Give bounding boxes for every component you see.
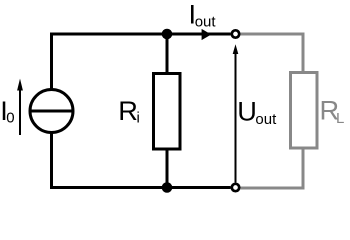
- output terminal top (open circle): [232, 30, 239, 37]
- wire left vertical upper segment: [50, 33, 53, 91]
- resistor Ri: [154, 74, 181, 150]
- svg-text:0: 0: [6, 109, 14, 126]
- svg-text:R: R: [118, 95, 138, 126]
- svg-text:out: out: [195, 14, 217, 31]
- node top junction: [162, 29, 173, 40]
- node bottom junction: [162, 182, 173, 193]
- wire left vertical lower segment: [50, 132, 53, 189]
- Uout annotation arrow: [235, 53, 237, 183]
- svg-text:out: out: [255, 111, 277, 128]
- svg-text:L: L: [336, 110, 344, 127]
- wire gray bottom from RL to output terminal: [240, 149, 303, 188]
- wire gray top from output terminal to RL: [240, 34, 303, 72]
- wire from top node down to Ri: [166, 34, 169, 73]
- svg-text:i: i: [137, 110, 140, 127]
- wire top rail from current source to output terminal: [52, 33, 231, 36]
- svg-text:U: U: [237, 96, 257, 127]
- resistor RL (load, gray): [291, 73, 318, 149]
- wire from Ri down to bottom node: [166, 149, 169, 188]
- I0 annotation arrow: [19, 88, 21, 135]
- wire bottom rail from current source to output terminal: [52, 186, 231, 189]
- current source I0: [30, 90, 73, 133]
- Iout current arrowhead: [202, 29, 212, 40]
- output terminal bottom (open circle): [232, 184, 239, 191]
